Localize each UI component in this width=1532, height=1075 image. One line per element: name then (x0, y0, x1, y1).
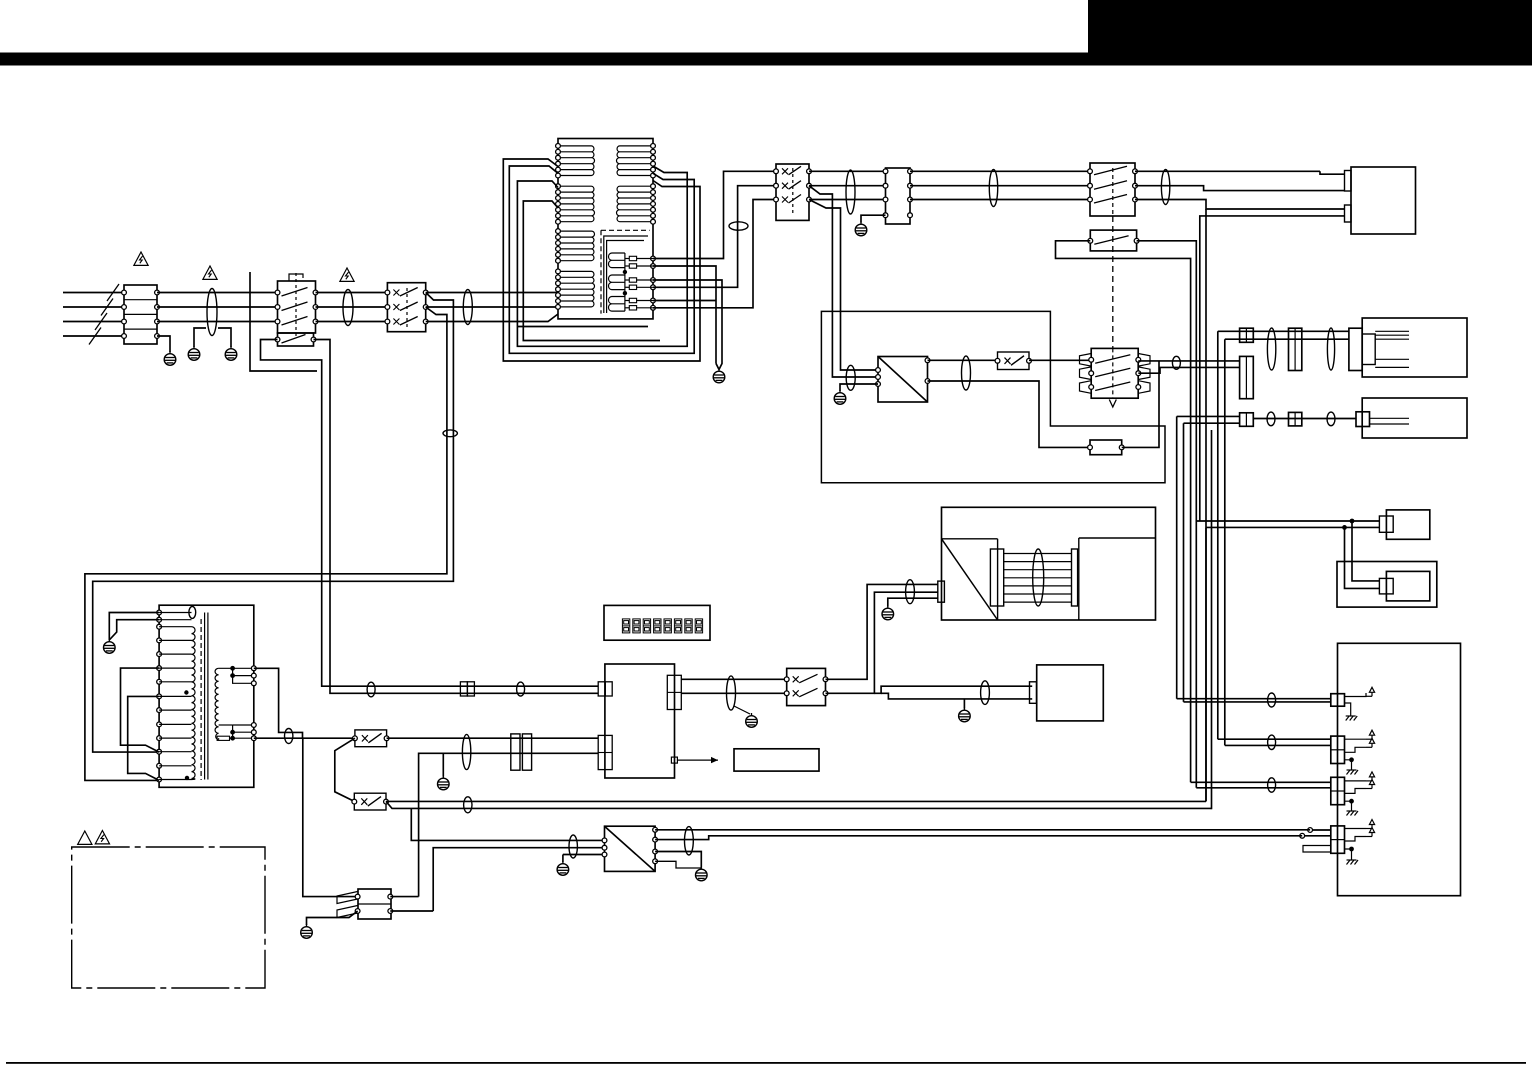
wire coil to fuse (625, 279, 629, 281)
wire CN-D out A (390, 896, 418, 898)
warning triangle bolt (95, 831, 109, 844)
connector CN-d (1289, 412, 1302, 426)
PSU2 terminal R (653, 849, 658, 854)
ribbon wire (1004, 593, 1072, 595)
DIP switch 8 (695, 619, 702, 633)
connector RB-4 (1331, 826, 1345, 853)
wire conn3 feed A (1191, 781, 1331, 783)
cable core E7 (962, 356, 971, 390)
ground drive cable (882, 606, 894, 620)
bus vertical x=1224.8 (1224, 339, 1226, 745)
ground shield A (188, 346, 200, 360)
wire SX to TB2 (809, 170, 886, 172)
controller box U1 (605, 664, 675, 778)
enclosure outline (821, 311, 1165, 482)
cable marker sensor (1172, 356, 1180, 369)
wire TR1 tab2 return (bus E) (1200, 216, 1345, 521)
PSU1 terminal L (876, 382, 881, 387)
connector CN-1 cell 1 (460, 682, 467, 696)
RB-3 divider (1331, 790, 1345, 792)
wire P1 into TR1 (1320, 171, 1345, 174)
ground TB2 (855, 222, 867, 236)
wire PSU1 to resistor R1 (928, 381, 1091, 447)
TR3 internal lead (1370, 417, 1410, 419)
wire PE drop (157, 336, 170, 352)
TB1 terminal (155, 305, 160, 310)
TX2 sec tap 2 (233, 668, 254, 675)
CN-D wing bottom (337, 906, 358, 918)
connector CN-b (1289, 328, 1302, 370)
cable slash L3 (95, 313, 107, 330)
TX2 primary terminal (157, 610, 162, 615)
TX2 primary tap lead (159, 667, 191, 669)
CN-b divider (1294, 328, 1296, 370)
bus vertical x=1206.0 (1205, 209, 1207, 527)
wire encoder A to TR-E2 (1352, 521, 1379, 581)
stub (1366, 746, 1372, 748)
fan box (1037, 665, 1104, 721)
ground ctrl out (746, 713, 758, 727)
PSU2 terminal R (653, 859, 658, 864)
TX2 primary terminal (157, 652, 162, 657)
wire TB2 to S2 (910, 170, 1090, 172)
wire mains L1 in (63, 292, 124, 294)
transformer TX1 outline (558, 139, 653, 319)
terminal box TB2 (886, 168, 911, 224)
drive partition a (942, 538, 998, 540)
cable marker TR3 (1267, 412, 1275, 426)
wire CN-D out B (390, 910, 433, 912)
connector CN-D (358, 889, 391, 919)
wire SX P2 to PSU1 (809, 186, 878, 377)
TR2 internal lead 2 (1375, 366, 1409, 368)
wire TX1 wrap loop 2 (509, 166, 694, 353)
connector CN-a2 (1240, 356, 1254, 398)
wire conn3 stub b (1345, 789, 1367, 794)
wire into TR-E1 (1352, 520, 1379, 522)
wire S1 P3 to TX1 (426, 314, 558, 322)
warning triangle (134, 252, 148, 265)
TX2 polarity dot 1 (184, 690, 188, 694)
motor sub-box left (1078, 538, 1080, 620)
wire PSU2 L3 gnd lead (563, 854, 605, 856)
junction conn4 gnd (1349, 847, 1354, 852)
wire encoder A (1196, 520, 1352, 522)
wire conn1 to frame (1345, 693, 1367, 697)
wire drive gnd lead (888, 598, 938, 606)
TX1 core (dashed) (601, 229, 650, 231)
DIP switch 5 (664, 619, 671, 633)
bus vertical x=1211.5 (1211, 430, 1213, 809)
TX1 tertiary winding 2 (609, 275, 625, 290)
wire PSU2 to RB-4 b (655, 836, 1302, 840)
wire SX to TB2 (809, 185, 886, 187)
TX1 primary winding group L3 (558, 231, 595, 261)
controller conn A cell 1 (598, 682, 605, 696)
wire to label (677, 759, 718, 761)
wire S3 R1 out (1138, 360, 1159, 362)
TX2 sec tap 4 (233, 724, 254, 726)
unit TR1 (1351, 167, 1416, 234)
junction encoder A (1350, 519, 1355, 524)
wire PSU2 to RB-4 a (655, 829, 1310, 831)
wire conn3 stub (1345, 780, 1367, 782)
TX2 primary terminal (157, 666, 162, 671)
wire S2b left loop (bus C) (1056, 241, 1191, 783)
stub (1366, 788, 1372, 790)
junction conn2 gnd (1349, 757, 1354, 762)
TX2 sec terminal b (251, 736, 256, 741)
TX2 primary terminal (157, 777, 162, 782)
ground TX1 shield (713, 369, 725, 383)
wire conn2 gnd (1345, 760, 1352, 765)
wire fuse to terminal (637, 279, 653, 281)
wire P3 into TR1 (1135, 200, 1345, 210)
wire conn1 feed b (1184, 701, 1331, 703)
K1 link (dashed) (295, 273, 297, 338)
wire to fan 2 (881, 693, 1032, 699)
wire mains L4 in (63, 335, 124, 337)
cable core E3 (463, 290, 472, 325)
ground PSU1 (834, 390, 846, 404)
PSU2 terminal L (602, 838, 607, 843)
TX2 primary terminal (157, 694, 162, 699)
TX1 shield 2 (607, 241, 644, 314)
TX2 sec terminal b (251, 730, 256, 735)
unit TR-E2 inner (1386, 571, 1429, 601)
TX2 primary tap lead (159, 681, 191, 683)
TX2 sec tap 3 (233, 676, 254, 684)
TX2 primary tap lead (159, 709, 191, 711)
wire TX1 tert3 to SX L3 (653, 200, 776, 308)
cable marker TX2 top (189, 606, 196, 618)
CN-D divider (358, 903, 391, 905)
wire S1 P1 to TX2 T12 (93, 293, 454, 753)
frame arrow 2b (1369, 738, 1374, 747)
TX2 core (dashed) (200, 619, 202, 780)
PSU2 diagonal (605, 826, 656, 871)
switch XS2 (354, 793, 386, 810)
chassis ground 4 (1347, 855, 1359, 865)
wire coil to fuse (625, 265, 629, 267)
ribbon wire (1004, 561, 1072, 563)
CN-d divider (1294, 412, 1296, 426)
motor sub-box top (1079, 537, 1156, 539)
ground TX2 (104, 639, 116, 653)
TR3 internal lead (1370, 423, 1410, 425)
TX2 primary tap lead (159, 626, 191, 628)
arrow head (711, 757, 718, 763)
drive unit outline (942, 507, 1156, 620)
connector CN-1 cell 2 (467, 682, 474, 696)
PSU2 terminal R (653, 827, 658, 832)
wire fuse to terminal (637, 307, 653, 309)
TB1 row divider (124, 299, 157, 301)
TX2 primary tap lead (159, 639, 191, 641)
ground CN-D (301, 924, 313, 938)
cable slash L2 (101, 299, 113, 316)
TX1 tertiary winding 1 (609, 253, 625, 268)
cable marker conn3 (1268, 778, 1276, 792)
wire conn1 gnd (1345, 703, 1351, 711)
wire to PSU2 L1 (411, 808, 604, 840)
TX1 tertiary common link (624, 253, 626, 311)
ground PSU2 in (557, 861, 569, 875)
TR2 internal lead (1375, 334, 1409, 336)
wire TB2 to S2 (910, 185, 1090, 187)
TX2 sec terminal (251, 681, 256, 686)
wire TX2 T1 gnd (109, 613, 159, 641)
wire TX1 tert1 to SX L1 (653, 171, 776, 258)
bus vertical x=1183.5 (1183, 423, 1185, 702)
junction conn3 gnd (1349, 799, 1354, 804)
main switch S1 (387, 283, 425, 332)
S3 release arrow (1109, 400, 1116, 408)
junction TX1 tert 2 (623, 291, 627, 295)
warning triangle 3 (340, 268, 354, 281)
TR1 connector tab 2 (1345, 205, 1352, 222)
connector CN-2 bar 1 (511, 734, 520, 770)
cable core ctrl out (727, 676, 736, 710)
wire to fan 1 (874, 686, 1032, 693)
wire XS1-XS2 link (335, 738, 355, 801)
ground shield B (225, 346, 237, 360)
wire fuse to terminal (637, 300, 653, 302)
PSU1 diagonal (878, 357, 928, 403)
S3 wing right (1138, 381, 1150, 394)
wire conn2 stub (1345, 738, 1367, 740)
wire PE bus (250, 272, 317, 371)
K1 aux pole frame (278, 333, 314, 346)
plug contact 4b (1300, 833, 1305, 838)
cable marker ctrl B (517, 682, 525, 696)
wire temp sensor A (1159, 360, 1240, 362)
connector CN-TR2 (1349, 328, 1362, 370)
header bar (0, 53, 1532, 66)
wire PSU1 PE (840, 384, 878, 391)
wire CN-D to controller (419, 753, 599, 896)
TR1 connector tab 1 (1345, 171, 1352, 192)
TB1 terminal (155, 334, 160, 339)
warning triangle plain (78, 831, 92, 844)
cable core E6 (1161, 170, 1169, 205)
TX2 primary tap lead (159, 619, 191, 621)
header title block (black) (1088, 0, 1532, 66)
contactor K1 (278, 281, 316, 333)
fuse TX1 (629, 306, 636, 310)
TB1 terminal (155, 290, 160, 295)
frame arrow 3b (1369, 780, 1374, 789)
TX2 primary tap lead (159, 737, 191, 739)
plug contact 4a (1308, 828, 1313, 833)
wire shield gnd stem (442, 753, 444, 776)
TX2 sec terminal (251, 666, 256, 671)
wire fuse to terminal (637, 286, 653, 288)
cable core E4 (846, 170, 855, 214)
fan connector (1030, 682, 1037, 704)
option unit outline (dash-dot) (72, 847, 265, 988)
cable marker TX1 risers (729, 222, 748, 230)
TX2 primary tap lead (159, 612, 191, 614)
footer rule (6, 1062, 1526, 1064)
wire fuse to terminal (637, 258, 653, 260)
wire safety loop A (386, 800, 1206, 802)
wire conn4 a (1313, 829, 1331, 831)
wire TB2 to S2 (910, 199, 1090, 201)
ground ctrl cable (438, 776, 450, 790)
TB1 row divider (124, 328, 157, 330)
wire temp sensor B (1138, 367, 1239, 373)
TR2 inner tab (1362, 334, 1375, 365)
switch S3 (1091, 348, 1138, 398)
wire TX1 wrap loop 1 (503, 159, 700, 361)
bus vertical x=1217.8 (1217, 331, 1219, 739)
wire TX2 sec route (254, 668, 303, 738)
wire TX2 to CN-D (303, 738, 358, 896)
wire TX2 T2 gnd (109, 620, 159, 640)
TX2 primary terminal (157, 749, 162, 754)
coil lead 4 (219, 724, 233, 726)
K1 actuator flag (289, 274, 303, 281)
chassis ground 1 (1346, 711, 1358, 721)
switch SX (776, 164, 809, 220)
TX2 primary winding scallops (192, 627, 196, 780)
frame arrow 4b (1369, 828, 1374, 837)
cable slash L1 (107, 284, 119, 301)
wire TX1 tert shield 1 (653, 266, 716, 364)
cable core E1 (207, 289, 217, 336)
label box (734, 749, 819, 771)
wire SX to TB2 (809, 199, 886, 201)
wire TX1 tert shield 2 (653, 280, 722, 370)
wire TX2 jumper T7-T12 (121, 668, 160, 752)
TX2 sec tap 1 (219, 667, 254, 669)
wire TX1 tert2 to SX L2 (653, 186, 776, 288)
wire conn4 gnd (1345, 849, 1352, 855)
wire phase to contactor (157, 306, 278, 308)
wire TX1 tert common (653, 300, 716, 302)
cable core fan (981, 681, 990, 705)
wire PSU2 gnd a (655, 852, 701, 868)
wire controller to XSP a (681, 678, 786, 680)
TX2 primary tap lead (159, 765, 191, 767)
wire XSP to drive 1 (826, 584, 938, 679)
cable marker conn2 (1268, 735, 1276, 749)
TX2 primary terminal (157, 624, 162, 629)
fuse TX1 (629, 278, 636, 282)
wire S1 P1 to TX1 (426, 292, 558, 294)
TX2 primary tap lead (159, 779, 191, 781)
TX2 primary tap lead (159, 751, 191, 753)
TX2 primary terminal (157, 736, 162, 741)
junction encoder B (1342, 525, 1347, 530)
drive connector (938, 581, 945, 602)
TX2 primary terminal (157, 617, 162, 622)
PSU2 terminal L (602, 845, 607, 850)
DIP switch 7 (685, 619, 692, 633)
stub (1366, 828, 1372, 830)
wire conn4 stub b (1345, 837, 1367, 842)
unit TR2 (1362, 318, 1467, 377)
ribbon wire (1004, 585, 1072, 587)
wire mains L2 in (63, 306, 124, 308)
coil end (218, 738, 220, 739)
TX2 primary terminal (157, 679, 162, 684)
TR2 internal lead 2 (1375, 358, 1409, 360)
PSU1 terminal L (876, 368, 881, 373)
wire K1 to S1 (316, 292, 388, 294)
wire conn1 feed (1177, 698, 1331, 700)
TX2 primary tap lead (159, 653, 191, 655)
TR-E2 tab (1379, 578, 1393, 594)
cable core ctrl C (462, 734, 470, 769)
TR2 internal lead (1375, 338, 1409, 340)
connector CN-TR3 (1356, 412, 1370, 427)
TR2 internal lead (1375, 330, 1409, 332)
DIP switch 2 (633, 619, 640, 633)
TX2 primary tap lead (159, 695, 191, 697)
wire S2 P1 east (1135, 170, 1320, 172)
S1 link (dashed) (406, 288, 408, 327)
TB1 terminal (122, 305, 127, 310)
wire S1 P2 to TX2 T14 (85, 307, 447, 780)
connector RB-1 (1331, 694, 1345, 707)
conn C divider (667, 691, 681, 693)
TX2 primary tap lead (159, 723, 191, 725)
wire TX1 wrap loop 4 (523, 201, 660, 341)
wire TX2 jumper T9-T14 (128, 696, 159, 780)
unit TR-E2 outer (1337, 562, 1437, 608)
TX2 sec tap 5 (233, 725, 254, 732)
connector RB-3 (1331, 777, 1345, 804)
wire conn4 loop (1303, 846, 1331, 853)
switch S2 (1090, 163, 1135, 216)
PSU2 terminal L (602, 852, 607, 857)
wire TX2 to XS1 (254, 737, 355, 739)
DIP switch 4 (654, 619, 661, 633)
ground PSU2 out (696, 867, 708, 881)
conn B divider (598, 752, 612, 754)
wire shield drain right (218, 328, 231, 347)
S3 wing left (1080, 381, 1092, 394)
cable core PSU2 feed (569, 835, 577, 858)
wire CN-D to PSU2 L2 (433, 848, 604, 911)
wire controller to XSP b (681, 692, 786, 694)
arrow stub (1366, 695, 1372, 697)
unit TR-E1 (1386, 510, 1429, 539)
wire encoder B (1206, 526, 1345, 528)
wire sensor S-A (1218, 330, 1349, 332)
SX link (dashed) (792, 168, 794, 216)
CN-a divider (1245, 328, 1247, 342)
bundle bar R (1072, 549, 1078, 606)
link (232, 732, 234, 738)
TX2 secondary winding (215, 668, 219, 739)
wire TX1 wrap bottom inner (517, 326, 648, 328)
cable core E2 (343, 290, 353, 326)
wire mains L3 in (63, 321, 124, 323)
wire safety loop B (386, 801, 1212, 808)
TX1 primary winding group L2 (558, 186, 595, 222)
junction sec 2 (230, 673, 235, 678)
cable core drive (906, 580, 915, 604)
TB1 terminal (122, 319, 127, 324)
fuse TX1 (629, 285, 636, 289)
wire TB2 PE (861, 215, 886, 222)
cable marker TX2 out (285, 729, 293, 744)
connector CN-c (1240, 413, 1254, 427)
S3 wing left (1080, 367, 1092, 380)
